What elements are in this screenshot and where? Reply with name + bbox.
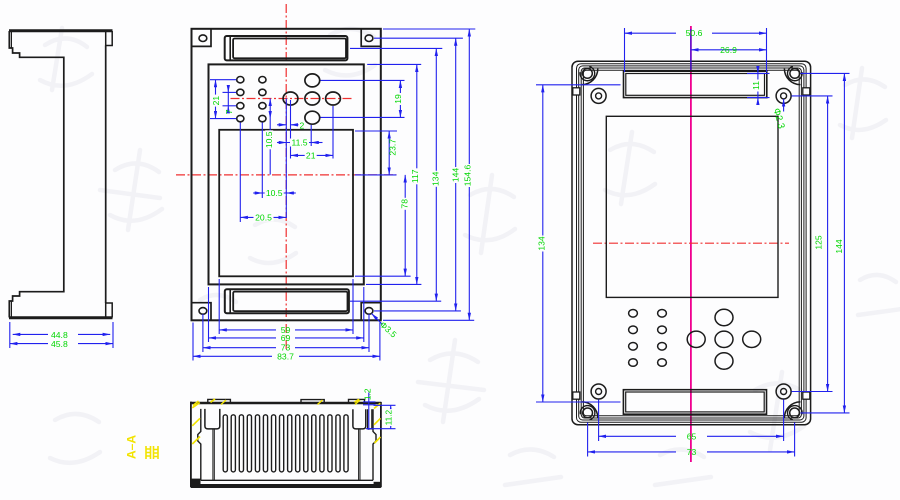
screw hole TR outer [776, 88, 791, 103]
right side ext lines [383, 28, 475, 30]
text 23.7 [387, 139, 397, 156]
dim 50.6 line [625, 32, 677, 34]
text 59 [281, 325, 291, 335]
top lip middle [301, 400, 324, 403]
text 134 [430, 171, 440, 187]
dim 144 line [843, 73, 845, 413]
small hole c2r2 [259, 89, 266, 95]
right wall clip square top [803, 88, 810, 95]
big hole left [687, 331, 705, 347]
dim 144 vertical [455, 38, 457, 311]
blue vertical ext: centerline [285, 99, 287, 219]
text 65 [687, 431, 697, 441]
text 69 [281, 333, 291, 343]
dim 117 vertical [416, 64, 418, 284]
ext from small c2r4 down [261, 123, 263, 199]
top slot left double line [229, 36, 231, 60]
dimension 45.8 [10, 343, 113, 345]
small hole c1r2 [629, 326, 638, 334]
small hole c1r1 [629, 310, 638, 318]
dim 83.7 line [193, 355, 272, 357]
outer rounded rect [572, 61, 811, 425]
dim 20.5 line [240, 216, 286, 218]
small hole c2r3 [259, 103, 266, 109]
flange inner line bottom [10, 301, 12, 317]
text A-A [125, 435, 139, 459]
ext 50.6 left [624, 28, 626, 72]
ear arc BL [582, 402, 598, 418]
svg-text:73: 73 [687, 447, 697, 457]
right view dim texts [537, 28, 844, 457]
svg-text:154.6: 154.6 [463, 165, 473, 187]
screw hole BR outer [776, 384, 791, 399]
centerline horizontal red (hole row) [231, 98, 354, 100]
top boss left [208, 399, 231, 403]
display window rect [219, 130, 353, 276]
dim 11.5 line [277, 142, 286, 144]
bottom slot outer [623, 390, 766, 415]
magenta centerline vertical [690, 26, 692, 462]
svg-text:78: 78 [400, 199, 410, 209]
display window [606, 116, 778, 297]
big hole center [305, 92, 320, 105]
svg-text:11: 11 [751, 81, 761, 90]
svg-text:26.9: 26.9 [720, 45, 737, 55]
section outline right wall [380, 402, 382, 487]
top slot outer [225, 36, 348, 60]
flange inner line top [10, 32, 12, 48]
dim 134 vertical [435, 48, 437, 301]
bottom dims ext lines [218, 279, 220, 334]
ear hole TL [583, 69, 593, 79]
text 26.9 [720, 45, 737, 55]
ear arc TL [582, 69, 598, 85]
svg-text:125: 125 [814, 235, 824, 250]
middle view dim texts [211, 93, 473, 361]
dim 73 line [203, 347, 276, 349]
bottom slot inner [233, 292, 347, 312]
centerline vertical red [285, 4, 287, 351]
corner tab TL hole [199, 35, 207, 42]
text 144 [450, 167, 460, 183]
text 83.7 [277, 351, 294, 361]
dim 134 line [542, 85, 544, 402]
text 154.6 [463, 164, 473, 187]
svg-text:23.7: 23.7 [387, 139, 397, 156]
section bottom edge [191, 484, 381, 488]
text 125 [814, 235, 824, 250]
top slot inner [233, 39, 346, 59]
dim 75 line [588, 451, 676, 453]
svg-text:20.5: 20.5 [255, 212, 272, 222]
dim 69 line [209, 337, 277, 339]
inner bottom line [201, 479, 373, 481]
bottom slot inner [626, 392, 765, 412]
svg-text:7: 7 [224, 109, 234, 114]
face rect b [583, 70, 799, 416]
dim 11 line [757, 67, 759, 74]
corner tab TL [192, 29, 212, 47]
dim 7 line [227, 87, 229, 93]
svg-text:Φ2.3: Φ2.3 [771, 107, 787, 130]
big hole left [283, 92, 298, 105]
dim 11 ext [747, 72, 770, 74]
text 11.5 [290, 138, 309, 148]
svg-text:65: 65 [687, 431, 697, 441]
panel rect [209, 64, 364, 284]
side profile right corner tab bottom [106, 303, 113, 318]
svg-text:19: 19 [393, 94, 403, 104]
yellow hatch right wall [355, 399, 381, 443]
side profile top edge [9, 29, 113, 32]
right post strip [368, 409, 372, 429]
text dia2.3 [771, 107, 787, 130]
dim 21 big holes line [291, 154, 334, 156]
svg-text:10.5: 10.5 [266, 188, 283, 198]
right post [353, 409, 366, 429]
dim 154.6 vertical [468, 29, 470, 320]
dim 1.2 [363, 393, 376, 431]
bottom 65 ext [598, 400, 600, 442]
small hole c1r4 [237, 115, 244, 121]
left wall clip square bottom [573, 392, 580, 399]
svg-text:10.5: 10.5 [264, 131, 274, 148]
svg-text:45.8: 45.8 [51, 339, 68, 349]
big hole top [305, 74, 320, 87]
bottom slot left double line [229, 289, 231, 313]
svg-text:69: 69 [281, 333, 291, 343]
text 21 [211, 95, 221, 107]
corner tab TR hole [365, 35, 373, 42]
text 73 [687, 447, 697, 457]
screw hole TR inner [781, 93, 787, 99]
ext lines 19 right [321, 79, 405, 81]
svg-text:1.2: 1.2 [363, 388, 373, 400]
text 11.2 [383, 409, 393, 426]
text 10.5 horiz [265, 188, 284, 198]
small hole c2r4 [658, 359, 667, 367]
text 21 big [305, 150, 317, 160]
border rect 2b [579, 66, 804, 420]
left wall inner line [198, 409, 201, 480]
section top edge [191, 402, 381, 405]
left wall clip square top [573, 88, 580, 95]
right 144 ext [801, 72, 850, 74]
small hole c1r3 [629, 343, 638, 351]
bottom 75 ext [587, 423, 589, 457]
corner tab BR hole [365, 308, 373, 315]
text 20.5 [254, 212, 274, 222]
left post [205, 409, 220, 429]
big hole center [715, 331, 733, 347]
svg-text:21: 21 [211, 96, 221, 106]
big hole top [715, 309, 733, 325]
svg-text:A–A: A–A [125, 435, 139, 459]
leader dia2.3 [783, 99, 785, 112]
centerline horizontal red (part center) [176, 174, 397, 176]
dim 2 line [277, 124, 286, 126]
screw hole BL outer [591, 384, 606, 399]
dim 19 line [399, 80, 401, 117]
text 10.5 vert [264, 130, 274, 149]
right wall inner line [373, 409, 376, 480]
svg-text:134: 134 [430, 171, 440, 186]
corner tab BL hole [199, 308, 207, 315]
screw hole TL inner [596, 93, 602, 99]
svg-text:50.6: 50.6 [686, 28, 703, 38]
dim 11.2 [366, 405, 396, 428]
svg-text:11.5: 11.5 [291, 138, 307, 148]
dim 21 line [215, 80, 217, 119]
text 134 [537, 236, 547, 252]
dim 10.5 vertical line [269, 99, 271, 119]
big hole bottom [715, 353, 733, 369]
small hole c1r4 [629, 359, 638, 367]
ext lines 21/7 left [210, 79, 236, 81]
text 73 [281, 343, 291, 353]
border rect 2 [577, 64, 807, 423]
svg-text:Φ3.5: Φ3.5 [378, 319, 399, 339]
svg-text:144: 144 [450, 168, 460, 183]
dim 26.9 line [691, 49, 711, 51]
dim 65 line [599, 435, 676, 437]
ear hole TR [790, 69, 800, 79]
small hole c2r2 [658, 326, 667, 334]
hanzi block [146, 446, 158, 459]
ext 26.9 center over magenta [690, 29, 692, 70]
small hole c1r2 [237, 89, 244, 95]
small hole c2r1 [658, 310, 667, 318]
small hole c1r3 [237, 103, 244, 109]
small hole c2r1 [259, 77, 266, 83]
svg-text:134: 134 [537, 236, 547, 251]
left 134 ext [536, 84, 621, 86]
bottom slot outer [225, 289, 349, 313]
section outline left wall [190, 402, 192, 488]
corner tab BR [361, 303, 381, 321]
big hole right [743, 331, 761, 347]
text 78 [400, 198, 410, 210]
right wall clip square bottom [803, 392, 810, 399]
small hole c2r4 [259, 115, 266, 121]
screw hole BL inner [596, 389, 602, 395]
text 117 [410, 168, 420, 184]
text 7 [224, 109, 234, 114]
dim extension lines 44.8/45.8 [10, 322, 113, 348]
svg-text:2: 2 [300, 120, 305, 130]
ear hole BL [583, 408, 593, 418]
left post stem [213, 429, 214, 481]
side profile right body edge [105, 46, 107, 304]
ext 50.6 right [766, 28, 768, 72]
screw hole TL outer [591, 88, 606, 103]
dim 10.5 horizontal line [253, 192, 262, 194]
outer rect [192, 29, 381, 321]
ext from big hole right down [332, 106, 334, 159]
top slot outer [624, 71, 767, 97]
face rect [581, 68, 801, 418]
text 50.6 [686, 28, 703, 38]
svg-text:11.2: 11.2 [383, 409, 393, 425]
dim 78 vertical [404, 175, 406, 276]
big hole right [326, 92, 341, 105]
right post stem [359, 429, 360, 481]
corner tab TR [361, 29, 381, 47]
side profile right corner tab top [106, 31, 113, 46]
red dashed horizontal centerline [593, 242, 789, 244]
text dia3.5 [378, 319, 399, 339]
ear arc TR [784, 69, 800, 85]
screw hole BR inner [781, 389, 787, 395]
small hole c2r3 [658, 343, 667, 351]
ear hole BR [790, 408, 800, 418]
section label A-A [125, 435, 159, 459]
side profile left flange and steps [9, 31, 64, 318]
text 19 [393, 93, 403, 105]
text 1.2 [363, 388, 373, 400]
svg-text:21: 21 [306, 150, 316, 160]
top slot inner [626, 74, 765, 96]
text 144 [834, 239, 844, 254]
dim 59 line [219, 329, 276, 331]
ext from small c1r4 down [239, 123, 241, 223]
yellow hatch left wall [192, 399, 215, 444]
svg-text:144: 144 [834, 239, 844, 254]
leader dia3.5 [372, 314, 383, 325]
side profile bottom edge [9, 316, 113, 319]
svg-text:117: 117 [410, 169, 420, 183]
dimension 44.8 [13, 333, 111, 335]
dim 23.7 vertical [388, 131, 390, 175]
right 125 ext [792, 95, 833, 97]
ext from big hole bottom down [310, 125, 312, 146]
corner tab BL [192, 303, 212, 321]
bottom right foot [374, 482, 381, 487]
text 11 [751, 80, 761, 92]
ext from big hole left down [290, 100, 292, 159]
ear arc BR [784, 402, 800, 418]
small hole c1r1 [237, 77, 244, 83]
heatsink fins [223, 415, 348, 472]
dim 125 line [827, 96, 829, 392]
big hole bottom [305, 111, 320, 124]
yellow hatch top band [193, 400, 360, 406]
svg-text:83.7: 83.7 [277, 351, 294, 361]
bottom left foot [192, 479, 201, 487]
top boss right [349, 399, 365, 403]
